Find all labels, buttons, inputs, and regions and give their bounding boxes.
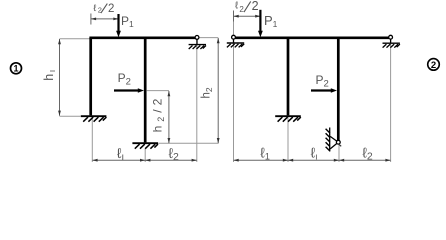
svg-text:h2/2: h2/2 [151,95,166,133]
svg-text:2: 2 [431,60,436,71]
svg-text:2: 2 [239,5,244,14]
svg-text:1: 1 [13,64,18,74]
svg-text:2: 2 [108,3,114,15]
svg-text:2: 2 [252,0,259,13]
